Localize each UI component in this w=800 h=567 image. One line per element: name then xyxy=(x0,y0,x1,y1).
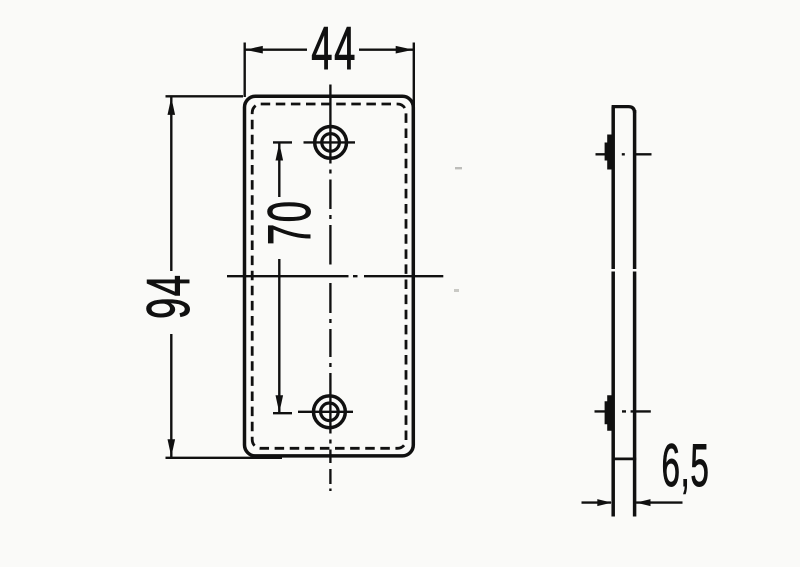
dimension 94: dimension line lower segment xyxy=(170,334,172,457)
dimension 70: dimension line lower segment xyxy=(278,259,280,413)
dimension 44: dimension line right segment xyxy=(359,49,414,51)
side view: left profile line upper part xyxy=(611,107,615,270)
side view: top edge with rounded right corner xyxy=(612,107,635,113)
side view: bottom edge bar xyxy=(612,458,637,461)
dimension 44: right extension line xyxy=(413,43,415,111)
dimension 94: top extension line xyxy=(166,95,244,97)
dimension 70: dimension line upper segment xyxy=(278,143,280,197)
dimension 44: left extension line xyxy=(243,43,245,98)
side view: bottom bolt head profile xyxy=(605,395,613,430)
plate outer outline (front view) xyxy=(245,96,414,456)
scan speck near right of plate xyxy=(455,167,462,169)
side view: top bolt head profile xyxy=(605,135,613,170)
dimension 6,5: dimension line right shaft xyxy=(636,501,682,503)
dimension 6,5: right arrow (pointing left) xyxy=(636,499,650,506)
side view: right profile line lower part xyxy=(633,272,637,517)
bottom hole horizontal crosshair xyxy=(298,411,353,413)
top hole outer circle xyxy=(315,126,347,158)
side view: right profile line upper part xyxy=(633,110,637,269)
side view: bottom hole centerline xyxy=(595,410,651,412)
top hole horizontal crosshair xyxy=(304,141,356,143)
dimension 70: lower tick at bottom hole centerline xyxy=(273,412,292,414)
scan speck lower xyxy=(454,289,459,292)
bottom hole outer circle xyxy=(314,396,346,428)
dimension 44: right arrow xyxy=(396,46,414,54)
side view: top hole centerline xyxy=(596,153,652,155)
dimension 70: bottom arrow xyxy=(276,395,284,413)
svg-text:70: 70 xyxy=(255,199,323,245)
dimension 94: top arrow xyxy=(168,97,176,115)
dimension 44: left arrow xyxy=(245,46,263,54)
dimension 6,5: dimension line left shaft xyxy=(582,501,612,503)
dimension 44: dimension line left segment xyxy=(245,49,307,51)
side view: left profile line lower part xyxy=(611,272,615,517)
dimension 94: bottom arrow xyxy=(168,439,176,457)
dimension 6,5: left arrow (pointing right) xyxy=(597,499,611,506)
top hole inner circle xyxy=(322,134,340,152)
dimension 94: bottom extension line xyxy=(166,457,283,459)
dimension 94: dimension line upper segment xyxy=(170,97,172,271)
horizontal centerline xyxy=(227,275,443,277)
svg-text:6,5: 6,5 xyxy=(662,433,710,500)
plate inner dashed outline xyxy=(252,104,406,448)
dimension 70: upper tick at top hole centerline xyxy=(273,141,292,143)
dimension 70: top arrow xyxy=(276,143,284,161)
vertical centerline (dash-dot through both holes) xyxy=(329,85,331,492)
bottom hole inner circle xyxy=(321,403,339,421)
svg-text:94: 94 xyxy=(134,273,202,319)
svg-text:44: 44 xyxy=(311,14,357,82)
